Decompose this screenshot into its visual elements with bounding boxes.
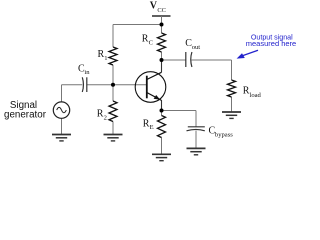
svg-text:generator: generator — [4, 110, 47, 121]
svg-text:C: C — [149, 40, 154, 47]
svg-text:load: load — [250, 92, 262, 99]
svg-text:E: E — [150, 124, 154, 131]
svg-text:in: in — [84, 69, 90, 76]
svg-text:1: 1 — [104, 55, 107, 62]
svg-text:CC: CC — [157, 7, 166, 14]
svg-text:measured here: measured here — [246, 39, 296, 48]
svg-text:2: 2 — [104, 114, 107, 121]
svg-text:bypass: bypass — [215, 131, 233, 138]
svg-text:out: out — [192, 44, 201, 51]
